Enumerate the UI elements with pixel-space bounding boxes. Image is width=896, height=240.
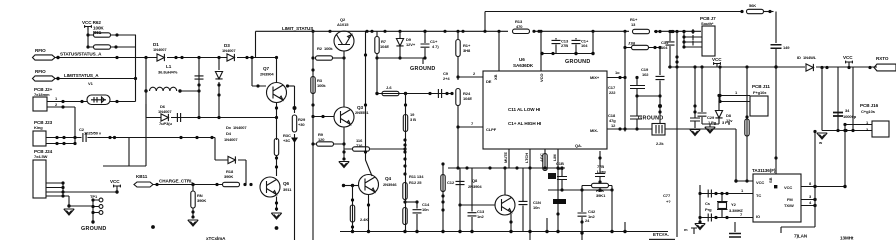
wire column C12	[459, 168, 461, 232]
blob	[548, 173, 556, 179]
svg-text:KB11: KB11	[136, 174, 148, 179]
diode D11	[291, 138, 298, 144]
wire column611	[611, 186, 613, 191]
svg-text:QA.: QA.	[575, 143, 582, 148]
svg-text:4: 4	[809, 200, 812, 205]
wire	[55, 57, 276, 59]
svg-text:GROUND: GROUND	[565, 59, 590, 65]
connector PCB J2	[33, 87, 53, 111]
svg-text:SA636DK: SA636DK	[513, 63, 534, 68]
node	[249, 183, 252, 186]
node	[450, 92, 453, 95]
svg-text:2.2k: 2.2k	[656, 141, 664, 146]
node	[670, 30, 673, 33]
svg-text:VCC: VCC	[712, 57, 722, 62]
node	[497, 30, 500, 33]
wire column 838	[837, 68, 839, 131]
capacitor C7	[177, 113, 180, 122]
wire column 853	[852, 68, 854, 131]
wire J7 pins	[682, 29, 702, 49]
node stray	[151, 225, 155, 229]
node	[623, 230, 626, 233]
node	[532, 30, 535, 33]
resistor R14 104E	[456, 30, 471, 80]
svg-text:w: w	[818, 140, 823, 145]
transistor Q2	[334, 17, 354, 51]
wire	[55, 78, 136, 80]
capacitor C9	[438, 71, 450, 98]
wire row	[215, 138, 246, 185]
svg-text:1N4007: 1N4007	[224, 137, 238, 142]
resistor R12	[403, 208, 407, 225]
node	[528, 166, 531, 169]
node	[428, 92, 431, 95]
wire column 822	[821, 68, 823, 131]
svg-text:FM: FM	[787, 197, 793, 202]
node	[868, 66, 871, 69]
wire	[180, 90, 199, 92]
connector PCB J11	[750, 84, 770, 116]
node	[813, 130, 816, 133]
diode D1	[153, 42, 167, 62]
node	[591, 30, 594, 33]
wire column406	[405, 94, 407, 116]
node	[675, 65, 678, 68]
svg-text:2+4: 2+4	[443, 76, 450, 81]
node	[217, 56, 220, 59]
svg-text:F+g10x: F+g10x	[753, 90, 767, 95]
capacitor C12	[447, 180, 465, 185]
node	[275, 207, 278, 210]
wire	[255, 31, 257, 57]
svg-text:1N4007: 1N4007	[153, 47, 167, 52]
node	[423, 56, 426, 59]
svg-text:CHARGE_CTRL: CHARGE_CTRL	[159, 179, 193, 184]
svg-text:CLPF: CLPF	[486, 127, 497, 132]
wire pin1	[47, 96, 87, 103]
node	[275, 56, 278, 59]
node	[180, 56, 183, 59]
svg-text:C11 AL LOW HI: C11 AL LOW HI	[508, 107, 540, 112]
node	[445, 92, 448, 95]
svg-text:TA31136(F): TA31136(F)	[752, 168, 776, 173]
wire pin2	[47, 102, 75, 138]
pin labels U3	[756, 177, 794, 219]
wire ground bus	[340, 231, 668, 233]
label R3C	[283, 133, 291, 143]
node	[720, 192, 723, 195]
svg-text:7)LAN: 7)LAN	[794, 234, 808, 239]
svg-text:+3C: +3C	[283, 138, 290, 143]
wire pin row2	[46, 138, 77, 146]
node	[458, 203, 461, 206]
node	[250, 56, 253, 59]
capacitor C19	[641, 48, 665, 124]
node	[108, 136, 111, 139]
node	[197, 89, 200, 92]
wire column 677	[676, 32, 678, 68]
svg-text:1N4007: 1N4007	[222, 48, 236, 53]
wire row163	[448, 167, 565, 169]
symbol stub	[691, 228, 697, 234]
wire	[87, 26, 89, 47]
wire column 747	[746, 67, 748, 181]
node	[217, 93, 220, 96]
svg-text:Cs: Cs	[705, 201, 711, 206]
wire pins	[46, 181, 117, 207]
node	[342, 157, 345, 160]
ferrite L2	[553, 168, 566, 233]
svg-text:149: 149	[783, 45, 790, 50]
node	[654, 30, 657, 33]
svg-text:GROUND: GROUND	[638, 116, 663, 122]
svg-text:7x4.5W: 7x4.5W	[34, 154, 48, 159]
node	[658, 110, 661, 113]
node	[658, 30, 661, 33]
node	[404, 103, 407, 106]
svg-text:12: 12	[611, 123, 616, 128]
svg-text:2N3904: 2N3904	[260, 72, 274, 77]
svg-text:7uP3(u: 7uP3(u	[159, 121, 172, 126]
wire collector Q7	[276, 58, 278, 83]
power VCC (J24)	[110, 179, 120, 194]
node	[342, 150, 345, 153]
resistor R6 56K	[740, 3, 773, 14]
svg-text:39K1: 39K1	[596, 193, 606, 198]
wire base Q7	[252, 58, 266, 87]
transistor Q3	[334, 105, 369, 127]
node	[403, 157, 406, 160]
svg-text:2: 2	[55, 102, 58, 107]
svg-text:56K: 56K	[749, 3, 756, 8]
node	[556, 166, 559, 169]
resistor R62	[88, 33, 136, 37]
capacitor C17	[608, 76, 645, 96]
svg-text:390K: 390K	[224, 174, 233, 179]
node	[560, 188, 563, 191]
node	[675, 60, 678, 63]
node	[509, 230, 512, 233]
resistor R11	[403, 183, 407, 200]
power VCC tap	[843, 55, 853, 69]
diode D5 zener	[213, 70, 225, 82]
node	[844, 129, 847, 132]
svg-text:VCC: VCC	[784, 185, 792, 190]
node	[113, 136, 116, 139]
resistor R9	[311, 132, 344, 146]
ground	[64, 209, 74, 215]
node	[144, 56, 147, 59]
node	[698, 192, 701, 195]
svg-text:South*: South*	[701, 21, 714, 26]
node	[115, 56, 118, 59]
node	[215, 183, 218, 186]
label R11 R12	[409, 174, 424, 185]
resistor R15	[441, 175, 445, 192]
wire cap rail	[542, 31, 593, 53]
node	[745, 115, 748, 118]
node	[367, 230, 370, 233]
connector PCB J23	[33, 120, 53, 146]
node	[364, 103, 367, 106]
node	[540, 52, 543, 55]
filter CF2	[652, 124, 665, 147]
node	[691, 30, 694, 33]
ground	[690, 130, 700, 136]
wire	[153, 184, 222, 186]
resistor R19	[410, 112, 416, 122]
svg-text:7x18mm: 7x18mm	[34, 92, 50, 97]
node	[398, 30, 401, 33]
node	[56, 77, 59, 80]
node	[714, 192, 717, 195]
node U3 top pin	[774, 156, 777, 159]
node	[217, 116, 220, 119]
wire	[88, 137, 216, 139]
wire filter out	[665, 129, 736, 181]
node	[191, 183, 194, 186]
wire column582	[581, 186, 583, 213]
svg-text:V1: V1	[88, 81, 94, 86]
node	[675, 30, 678, 33]
wire riser vertical	[457, 127, 459, 168]
capacitor C13	[468, 168, 485, 233]
wire J16 pin1	[843, 120, 872, 132]
connector RFIO (LIMIT)	[33, 69, 56, 81]
node	[545, 230, 548, 233]
node	[115, 100, 118, 103]
node	[311, 30, 314, 33]
svg-text:2N3904: 2N3904	[468, 184, 482, 189]
node	[217, 83, 220, 86]
node	[461, 30, 464, 33]
svg-text:3 Pg: 3 Pg	[722, 120, 731, 125]
node	[403, 200, 406, 203]
wire U3 right pins	[801, 181, 847, 207]
node	[250, 56, 253, 59]
wire row	[146, 91, 277, 118]
svg-text:VCC: VCC	[843, 55, 853, 60]
node	[351, 230, 354, 233]
node	[671, 30, 674, 33]
svg-text:104: 104	[661, 45, 668, 50]
svg-text:1n2: 1n2	[477, 214, 485, 219]
capacitor C28	[771, 45, 791, 50]
node	[364, 150, 367, 153]
resistor R7 104E	[375, 31, 390, 93]
svg-text:13MHt: 13MHt	[840, 236, 854, 240]
svg-text:VCC: VCC	[110, 179, 120, 184]
svg-text:Y2: Y2	[731, 202, 737, 207]
svg-text:m: m	[684, 227, 688, 232]
svg-text:Q8: Q8	[472, 178, 478, 183]
node	[144, 89, 147, 92]
node	[745, 179, 748, 182]
svg-text:R11 134: R11 134	[409, 174, 424, 179]
node	[623, 76, 626, 79]
svg-text:222: 222	[609, 90, 616, 95]
node	[403, 138, 406, 141]
wire IC top pin 2	[540, 31, 542, 71]
wire emitter Q6	[276, 197, 278, 212]
node	[598, 188, 601, 191]
wire riser to top bus	[485, 12, 742, 32]
node	[174, 56, 177, 59]
power VCC rail	[712, 57, 722, 67]
svg-text:104: 104	[581, 43, 588, 48]
svg-text:1N4007: 1N4007	[233, 125, 247, 130]
wire column 625	[624, 32, 626, 132]
node	[275, 201, 278, 204]
wire pin row1	[46, 136, 82, 139]
node	[328, 30, 331, 33]
node	[342, 184, 345, 187]
node	[441, 230, 444, 233]
node	[458, 230, 461, 233]
wire shield	[103, 104, 146, 166]
wire emitter Q8	[510, 214, 512, 232]
svg-text:Dx: Dx	[226, 125, 232, 130]
svg-text:C+g10s: C+g10s	[861, 109, 876, 114]
svg-text:LIMITSTATUS_A: LIMITSTATUS_A	[64, 73, 99, 78]
node	[456, 125, 459, 128]
node	[580, 188, 583, 191]
svg-text:LIM: LIM	[552, 154, 557, 161]
node	[543, 166, 546, 169]
resistor R14 2.4K	[350, 205, 368, 229]
resistor R3	[311, 68, 327, 93]
svg-text:1N4WL: 1N4WL	[803, 55, 817, 60]
node	[415, 230, 418, 233]
svg-text:VCC R62: VCC R62	[82, 20, 101, 25]
node	[734, 179, 737, 182]
ground	[188, 220, 198, 226]
svg-text:R12 25: R12 25	[409, 180, 422, 185]
node	[851, 129, 854, 132]
node	[836, 129, 839, 132]
connector PCB J16	[860, 103, 889, 137]
bar bottom	[649, 239, 675, 240]
svg-text:7: 7	[471, 121, 474, 126]
wire row58	[377, 58, 425, 64]
svg-text:C12: C12	[447, 180, 455, 185]
resistor R19 on bus	[629, 17, 654, 34]
diode D8	[715, 94, 733, 124]
svg-text:RFIO: RFIO	[35, 69, 46, 74]
svg-text:390K: 390K	[197, 198, 206, 203]
crystal cluster wires	[700, 185, 753, 222]
capacitor C16	[421, 30, 440, 58]
node	[675, 55, 678, 58]
wire row124	[702, 124, 719, 127]
wire Q7 right tap	[287, 85, 295, 87]
node	[725, 216, 728, 219]
wire left column Q4	[352, 186, 354, 232]
node	[423, 30, 426, 33]
svg-text:TP1: TP1	[90, 194, 98, 199]
wire emitter Q3	[343, 127, 345, 160]
resistor R26	[745, 119, 749, 136]
wire column 677b	[676, 67, 678, 237]
resistor R13	[508, 19, 534, 34]
wire column 815	[814, 132, 816, 228]
wire emitter Q4	[368, 195, 370, 232]
wire collector Q3	[343, 51, 345, 107]
node	[86, 45, 89, 48]
transistor Q4	[359, 175, 398, 195]
node	[623, 30, 626, 33]
svg-text:+?: +?	[666, 199, 671, 204]
node	[635, 94, 638, 97]
resistor R17	[223, 182, 240, 186]
node	[195, 136, 198, 139]
capacitor C27	[690, 67, 700, 128]
svg-text:104E: 104E	[380, 44, 389, 49]
capacitor C21	[595, 151, 606, 181]
wire row93 mid	[377, 93, 452, 95]
svg-text:MIX-: MIX-	[590, 128, 599, 133]
wire IC top pin 1	[498, 31, 500, 71]
svg-text:2.4K: 2.4K	[360, 217, 368, 222]
node	[618, 127, 621, 130]
node	[56, 56, 59, 59]
node	[342, 142, 345, 145]
capacitor C35	[705, 190, 712, 213]
wire stub625	[624, 222, 626, 232]
svg-text:R2: R2	[317, 46, 323, 51]
node	[725, 192, 728, 195]
wire MIX- out	[607, 128, 652, 130]
capacitor C3	[195, 76, 204, 79]
svg-text:TX/W: TX/W	[784, 203, 794, 208]
node	[245, 56, 248, 59]
node	[286, 84, 289, 87]
node	[155, 183, 158, 186]
capacitor C14	[405, 200, 430, 231]
wire VCC rail	[668, 66, 877, 68]
svg-text:102: 102	[642, 72, 649, 77]
labels D7 column	[224, 125, 247, 179]
node	[351, 184, 354, 187]
node	[311, 103, 314, 106]
svg-text:2N3946: 2N3946	[383, 182, 397, 187]
capacitor C13a	[552, 38, 569, 54]
svg-text:34: 34	[845, 108, 850, 113]
node	[465, 166, 468, 169]
capacitor C29	[698, 67, 715, 124]
diode D3	[222, 43, 237, 62]
node	[365, 30, 368, 33]
wire column530	[529, 168, 531, 240]
svg-text:LIMIT_STATUS: LIMIT_STATUS	[282, 26, 313, 31]
svg-text:GROUND: GROUND	[81, 226, 106, 232]
svg-text:U6: U6	[519, 57, 525, 62]
resistor R7	[403, 115, 407, 132]
svg-text:C77: C77	[663, 193, 671, 198]
ground	[705, 127, 715, 133]
svg-text:XB: XB	[493, 74, 498, 80]
node	[364, 53, 367, 56]
node	[774, 65, 777, 68]
svg-text:VCO: VCO	[539, 74, 544, 82]
node	[551, 52, 554, 55]
wire collector Q8	[504, 168, 506, 195]
resistor R10	[344, 138, 407, 151]
wire main bus y31	[256, 30, 702, 32]
svg-text:VCC: VCC	[756, 180, 764, 185]
node	[441, 208, 444, 211]
node	[658, 94, 661, 97]
